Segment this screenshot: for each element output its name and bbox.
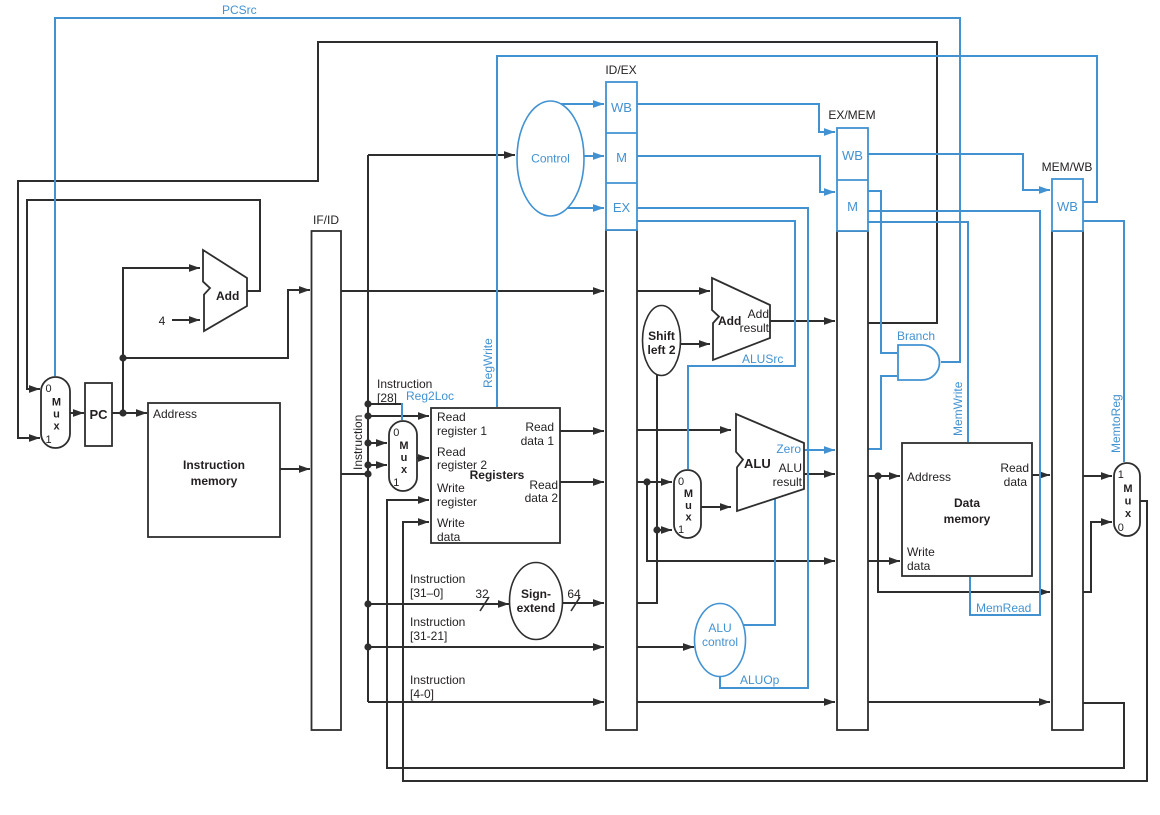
- wire: EX Add result to EX/MEM: [770, 317, 835, 325]
- instruction memory: [148, 403, 280, 537]
- svg-text:u: u: [53, 408, 60, 420]
- wire: final mux output write data feedback to Registers: [403, 501, 1147, 781]
- svg-text:MemWrite: MemWrite: [951, 381, 965, 436]
- svg-text:Branch: Branch: [897, 329, 935, 343]
- pipeline register IF/ID: [312, 231, 342, 730]
- svg-text:Shift: Shift: [648, 329, 675, 343]
- node: instruction [28] junction: [364, 400, 371, 407]
- svg-text:Instruction: Instruction: [377, 377, 432, 391]
- svg-text:ALU: ALU: [744, 456, 771, 471]
- svg-text:Read: Read: [437, 410, 466, 424]
- svg-text:Write: Write: [437, 516, 465, 530]
- node: instruction bus junction: [364, 470, 371, 477]
- svg-text:u: u: [1125, 496, 1132, 508]
- wire: ID/EX M to EX/MEM M: [637, 156, 835, 196]
- svg-text:0: 0: [45, 383, 51, 395]
- svg-text:extend: extend: [517, 601, 556, 615]
- adder EX-stage Add (branch target): [712, 278, 770, 360]
- svg-text:WB: WB: [1057, 199, 1078, 214]
- svg-text:x: x: [401, 464, 408, 476]
- svg-text:Instruction: Instruction: [410, 673, 465, 687]
- wire: ID/EX WB to EX/MEM WB: [637, 104, 835, 136]
- svg-text:left 2: left 2: [647, 343, 675, 357]
- wire: ALUSrc from ID/EX EX to ALU mux select: [637, 221, 795, 469]
- svg-text:x: x: [53, 421, 60, 433]
- svg-text:control: control: [702, 635, 738, 649]
- wire: Reg2Loc select drop to mux: [401, 403, 403, 420]
- svg-text:M: M: [684, 488, 693, 500]
- pipeline register MEM/WB black part: [1052, 231, 1083, 730]
- svg-text:PC: PC: [89, 407, 108, 422]
- wire: ALUOp from ID/EX EX to ALU control: [637, 208, 808, 688]
- svg-text:Read: Read: [525, 420, 554, 434]
- svg-text:1: 1: [393, 477, 399, 489]
- svg-text:MemRead: MemRead: [976, 601, 1031, 615]
- svg-text:Instruction: Instruction: [351, 415, 365, 470]
- svg-text:Instruction: Instruction: [410, 572, 465, 586]
- wire: ID/EX read data 1 to ALU top input: [637, 426, 731, 434]
- svg-text:MEM/WB: MEM/WB: [1042, 160, 1093, 174]
- wire: MEM/WB read data to final mux input 1: [1083, 472, 1112, 480]
- wire: instruction bus from IF/ID right edge: [341, 473, 368, 475]
- wire: Read data 1 to ID/EX: [560, 427, 604, 435]
- svg-text:EX/MEM: EX/MEM: [828, 108, 875, 122]
- wire: EX/MEM WB to MEM/WB WB: [868, 154, 1050, 194]
- svg-text:PCSrc: PCSrc: [222, 3, 257, 17]
- wire: instruction [28] tap to Reg2Loc: [368, 403, 402, 405]
- svg-text:data: data: [907, 559, 931, 573]
- wire: PC tap into IF/ID: [123, 286, 310, 358]
- node: PC output junction: [119, 409, 126, 416]
- wire: PCSrc from branch AND gate to PC mux select: [55, 18, 960, 376]
- shift left 2 unit: [643, 306, 681, 376]
- svg-text:x: x: [1125, 508, 1132, 520]
- wire: MemRead from EX/MEM M to data memory bottom: [868, 211, 1040, 615]
- wire: Control to ID/EX WB: [559, 100, 604, 108]
- wire: sign-extend tap to ALU mux input 1: [657, 526, 672, 534]
- svg-text:ID/EX: ID/EX: [605, 63, 636, 77]
- svg-text:Reg2Loc: Reg2Loc: [406, 389, 454, 403]
- svg-text:MemtoReg: MemtoReg: [1109, 394, 1123, 453]
- wire: RegWrite from MEM/WB WB back to Registers: [497, 56, 1097, 407]
- svg-text:Data: Data: [954, 496, 980, 510]
- svg-text:[4-0]: [4-0]: [410, 687, 434, 701]
- node: instruction [31-21] junction: [364, 643, 371, 650]
- svg-text:Address: Address: [907, 470, 951, 484]
- adder IF-stage Add (PC+4): [203, 250, 247, 331]
- wire: instruction memory output to IF/ID: [280, 465, 310, 473]
- wire: PC mux output to PC: [70, 409, 84, 417]
- mux PC source (0/1): [41, 377, 70, 448]
- svg-text:ALUSrc: ALUSrc: [742, 352, 783, 366]
- wire: branch target from EX/MEM back to PC mux input 1: [18, 42, 937, 442]
- wire: sign-extended value from ID/EX up to mux and shift: [637, 374, 657, 603]
- svg-text:4: 4: [159, 314, 166, 328]
- wire: instruction to Control: [368, 151, 515, 159]
- wire: ALU result bypass down to MEM/WB: [878, 476, 1050, 596]
- svg-text:data 2: data 2: [525, 491, 559, 505]
- mux MemtoReg (1/0): [1114, 463, 1140, 536]
- wire: ID/EX instruction [31-21] to ALU control: [637, 643, 694, 651]
- svg-text:1: 1: [1118, 469, 1124, 481]
- svg-text:Add: Add: [748, 307, 769, 321]
- wire: PC+4 from IF Add output back to PC mux input 0: [27, 200, 260, 393]
- wire: Control to ID/EX EX: [559, 204, 604, 212]
- wire: ID/EX read data 2 to ALU mux input 0: [637, 478, 672, 486]
- wire: Reg2Loc mux output to Read register 2: [417, 454, 429, 462]
- control unit U-Control: [517, 101, 584, 216]
- wire: EX/MEM write data to data memory: [868, 557, 900, 565]
- svg-text:ALU: ALU: [779, 461, 802, 475]
- svg-text:WB: WB: [611, 100, 632, 115]
- svg-text:EX: EX: [613, 200, 631, 215]
- svg-text:Read: Read: [437, 445, 466, 459]
- svg-text:data: data: [1004, 475, 1028, 489]
- pipeline register EX/MEM blue part: [837, 128, 868, 231]
- wire: EX/MEM instruction [4-0] to MEM/WB: [868, 698, 1050, 706]
- wire: instruction to Read register 1: [368, 412, 429, 420]
- data memory: [902, 443, 1032, 576]
- wire: Control to ID/EX M: [583, 152, 604, 160]
- wire: ID/EX instruction [4-0] to EX/MEM: [637, 698, 835, 706]
- wire: data memory Read data to MEM/WB: [1032, 471, 1050, 479]
- wire: ALU control output to ALU: [743, 498, 775, 625]
- svg-text:Read: Read: [1000, 461, 1029, 475]
- op-amp style ALU: [736, 414, 804, 511]
- svg-text:M: M: [1123, 483, 1132, 495]
- svg-text:Read: Read: [529, 478, 558, 492]
- pipeline register EX/MEM black part: [837, 231, 868, 730]
- ALU control unit: [695, 604, 746, 677]
- wire: Read data 2 to ID/EX: [560, 478, 604, 486]
- wire: Shift left 2 output to EX Add bottom input: [680, 340, 710, 348]
- sign-extend unit: [510, 563, 563, 640]
- svg-text:x: x: [685, 511, 692, 523]
- wire: ALU result to EX/MEM: [804, 470, 835, 478]
- svg-text:Write: Write: [437, 481, 465, 495]
- node: ALU result junction: [874, 472, 881, 479]
- svg-text:1: 1: [678, 524, 684, 536]
- svg-text:memory: memory: [944, 512, 991, 526]
- svg-text:result: result: [773, 475, 803, 489]
- wire: Sign-extend output to ID/EX: [562, 599, 604, 607]
- svg-text:Sign-: Sign-: [521, 587, 551, 601]
- svg-text:M: M: [616, 150, 627, 165]
- wire: MemtoReg from MEM/WB WB to final mux select: [1083, 221, 1124, 462]
- node: mux1 junction: [364, 461, 371, 468]
- registers: [431, 408, 560, 543]
- register PC: [85, 383, 112, 446]
- svg-text:M: M: [399, 440, 408, 452]
- node: instruction [31-0] junction: [364, 600, 371, 607]
- svg-text:Instruction: Instruction: [183, 458, 245, 472]
- svg-text:Instruction: Instruction: [410, 615, 465, 629]
- wire: constant 4 into IF Add: [172, 316, 200, 324]
- wire: write register number feedback to Registers: [387, 496, 1124, 768]
- wire: MEM/WB ALU result to final mux input 0: [1083, 518, 1112, 592]
- node: read register 1 junction: [364, 412, 371, 419]
- svg-text:u: u: [685, 500, 692, 512]
- svg-text:Add: Add: [216, 289, 239, 303]
- svg-text:IF/ID: IF/ID: [313, 213, 339, 227]
- svg-text:Add: Add: [718, 314, 741, 328]
- svg-text:register 1: register 1: [437, 424, 487, 438]
- wire: PC value up to IF Add top input: [123, 264, 200, 413]
- wire: Branch signal from EX/MEM M to AND gate: [868, 191, 897, 353]
- wire: PC output to instruction memory Address: [112, 409, 147, 417]
- mux ALU operand (0/1): [674, 470, 701, 538]
- svg-text:[31–0]: [31–0]: [410, 586, 443, 600]
- pipeline register MEM/WB blue part: [1052, 179, 1083, 231]
- node: mux0 junction: [364, 439, 371, 446]
- wire: instruction [4-0] to ID/EX: [368, 698, 604, 706]
- svg-text:[28]: [28]: [377, 391, 397, 405]
- node: sign-extend / shift junction: [653, 526, 660, 533]
- svg-text:Address: Address: [153, 407, 197, 421]
- mux Reg2Loc (0/1): [389, 421, 417, 491]
- svg-text:WB: WB: [842, 148, 863, 163]
- wire: ALU mux output to ALU bottom input: [701, 503, 731, 511]
- node: read data 2 junction: [643, 478, 650, 485]
- svg-text:memory: memory: [191, 474, 238, 488]
- svg-text:M: M: [52, 396, 61, 408]
- svg-text:1: 1: [45, 434, 51, 446]
- pipeline register ID/EX black part: [606, 230, 637, 730]
- svg-text:0: 0: [1118, 522, 1124, 534]
- wire: Zero flag from EX/MEM to AND gate: [868, 376, 897, 449]
- wire: read data 2 tap down to EX/MEM write data: [647, 482, 835, 565]
- wire: ID/EX PC value to EX Add top input: [637, 287, 710, 295]
- svg-text:Control: Control: [531, 152, 570, 166]
- svg-text:data 1: data 1: [521, 434, 555, 448]
- svg-text:0: 0: [393, 427, 399, 439]
- wire: instruction [31-0] to Sign-extend: [368, 600, 509, 608]
- svg-text:M: M: [847, 199, 858, 214]
- wire: IF/ID PC value to ID/EX: [341, 287, 604, 295]
- wire: instruction [31-21] to ID/EX: [368, 643, 604, 651]
- AND gate (branch): [898, 345, 940, 380]
- wire: Zero flag from ALU to EX/MEM: [804, 446, 835, 454]
- svg-text:0: 0: [678, 476, 684, 488]
- svg-text:register: register: [437, 495, 477, 509]
- svg-text:ALU: ALU: [708, 621, 731, 635]
- wire: instruction tap to Reg2Loc mux input 0: [368, 439, 387, 447]
- svg-text:data: data: [437, 530, 461, 544]
- wire: instruction vertical distribution line: [367, 155, 369, 702]
- pipeline register ID/EX blue part: [606, 82, 637, 230]
- node: PC tap junction: [119, 354, 126, 361]
- wire: EX/MEM ALU result to data memory Address: [868, 472, 900, 480]
- svg-text:Write: Write: [907, 545, 935, 559]
- svg-text:RegWrite: RegWrite: [481, 338, 495, 388]
- svg-text:[31-21]: [31-21]: [410, 629, 447, 643]
- wire: MemWrite from EX/MEM M to data memory top: [868, 222, 968, 442]
- svg-text:Registers: Registers: [470, 468, 525, 482]
- wire: instruction tap to Reg2Loc mux input 1: [368, 461, 387, 469]
- svg-text:result: result: [740, 321, 770, 335]
- svg-text:u: u: [401, 452, 408, 464]
- svg-text:Zero: Zero: [776, 442, 801, 456]
- svg-text:ALUOp: ALUOp: [740, 673, 780, 687]
